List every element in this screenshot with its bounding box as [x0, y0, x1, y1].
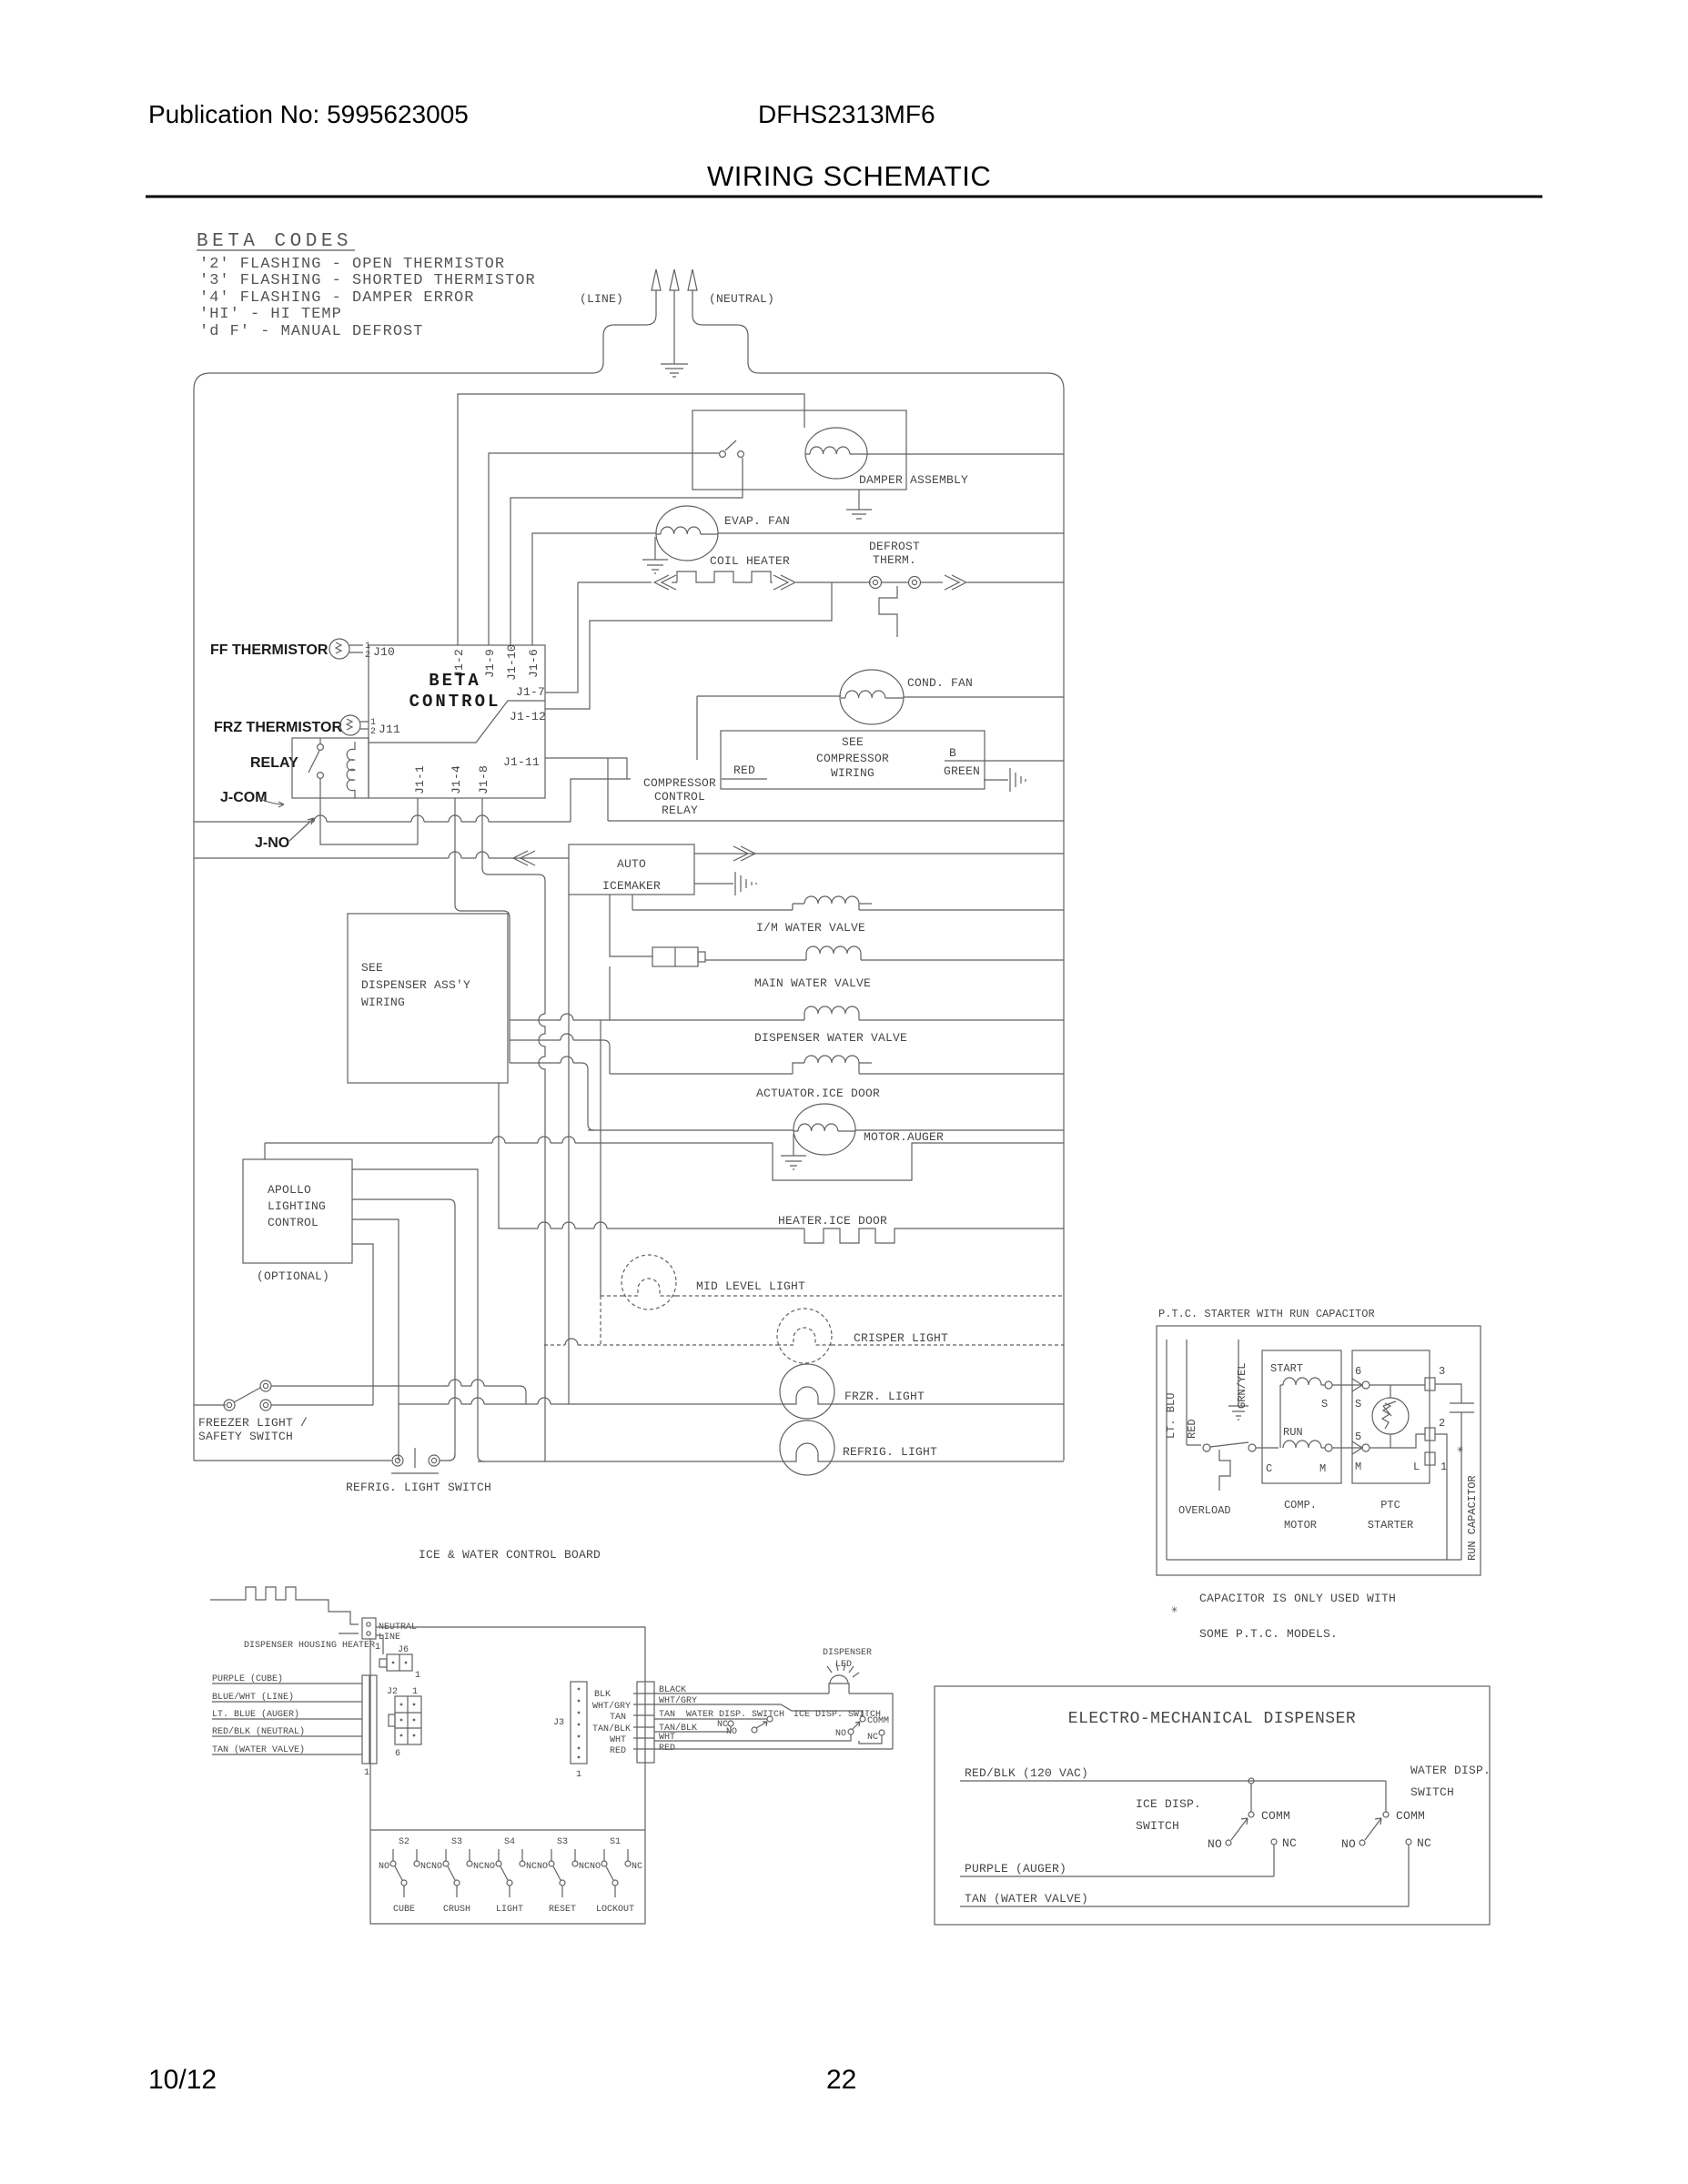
start winding coil — [1280, 1378, 1325, 1385]
svg-text:RED/BLK (120 VAC): RED/BLK (120 VAC) — [965, 1766, 1088, 1780]
FRZ thermistor symbol — [340, 715, 369, 735]
BETA CONTROL box — [369, 645, 545, 798]
freezer switch lower row — [271, 1404, 373, 1406]
apollo output 2 — [352, 1199, 455, 1461]
mid level light dashed row — [601, 1255, 1064, 1345]
svg-text:REFRIG. LIGHT: REFRIG. LIGHT — [843, 1445, 937, 1459]
refrig light bulb — [780, 1421, 834, 1475]
svg-text:TAN: TAN — [659, 1710, 675, 1720]
switch S3 — [443, 1849, 472, 1897]
svg-text:M: M — [1355, 1461, 1361, 1473]
svg-text:J1-1: J1-1 — [413, 765, 427, 794]
svg-text:RED/BLK (NEUTRAL): RED/BLK (NEUTRAL) — [212, 1726, 305, 1737]
svg-text:DISPENSER ASS'Y: DISPENSER ASS'Y — [361, 978, 470, 992]
ice water control board box — [370, 1627, 645, 1924]
hops on upper row — [449, 1380, 484, 1386]
dispenser housing heater element — [210, 1587, 359, 1624]
hop arcs on left rail — [314, 815, 489, 822]
svg-text:10/12: 10/12 — [148, 2065, 217, 2095]
damper motor coil — [805, 447, 867, 454]
svg-text:J1-12: J1-12 — [510, 710, 546, 723]
svg-text:BLUE/WHT (LINE): BLUE/WHT (LINE) — [212, 1692, 294, 1703]
actuator ice door feed from dispenser box — [510, 1034, 610, 1074]
wire main valve connector down to dispenser row — [609, 966, 611, 1020]
svg-text:ICEMAKER: ICEMAKER — [602, 879, 661, 893]
svg-text:FRZR. LIGHT: FRZR. LIGHT — [844, 1390, 925, 1403]
svg-text:S: S — [1355, 1398, 1361, 1410]
svg-text:SOME P.T.C. MODELS.: SOME P.T.C. MODELS. — [1199, 1627, 1338, 1641]
svg-text:WHT: WHT — [610, 1735, 626, 1745]
motor loop row — [265, 1137, 1064, 1180]
damper ground stem — [858, 490, 860, 510]
frzr light bulb — [780, 1364, 834, 1419]
svg-text:P.T.C. STARTER WITH RUN CAPACI: P.T.C. STARTER WITH RUN CAPACITOR — [1158, 1308, 1375, 1320]
freezer row riser 578 — [520, 1386, 526, 1404]
svg-text:J-COM: J-COM — [220, 790, 268, 805]
svg-text:CONTROL: CONTROL — [268, 1216, 318, 1229]
svg-text:NO: NO — [484, 1862, 495, 1872]
evap fan ground symbol — [642, 560, 668, 573]
wire overload to comp motor — [1256, 1447, 1279, 1449]
icemaker feed left arrows — [513, 851, 535, 865]
svg-text:TAN (WATER VALVE): TAN (WATER VALVE) — [212, 1744, 305, 1755]
wire icemaker to main valve connector — [610, 895, 652, 956]
wire GRN/YEL with ground — [1228, 1340, 1248, 1420]
svg-text:PURPLE (AUGER): PURPLE (AUGER) — [965, 1862, 1066, 1876]
ice disp switch contacts — [848, 1716, 884, 1735]
svg-text:'3' FLASHING - SHORTED THERMIS: '3' FLASHING - SHORTED THERMISTOR — [199, 272, 536, 289]
refrig row to right frame — [478, 1461, 1064, 1462]
wire WHT to NO — [654, 1734, 882, 1744]
frzr light row — [399, 1364, 1064, 1419]
svg-text:LIGHT: LIGHT — [496, 1905, 523, 1915]
svg-text:FRZ THERMISTOR: FRZ THERMISTOR — [214, 720, 342, 735]
wire lt blue — [212, 1718, 362, 1720]
PTC outer box — [1157, 1326, 1481, 1575]
svg-text:RUN: RUN — [1283, 1426, 1303, 1439]
freezer switch upper row — [271, 1385, 520, 1387]
auto icemaker box — [194, 844, 1064, 895]
svg-text:COMPRESSOR: COMPRESSOR — [816, 752, 889, 765]
svg-text:THERM.: THERM. — [873, 553, 916, 567]
bundle vertical 660 dispenser-light — [600, 1020, 601, 1296]
svg-text:DFHS2313MF6: DFHS2313MF6 — [758, 100, 935, 128]
svg-text:S: S — [1321, 1398, 1328, 1410]
wire relay NO to J1-1 — [320, 779, 418, 844]
apollo wire to motor loop row — [264, 1143, 266, 1159]
wire neutral-in S-curve to frame top — [692, 290, 759, 373]
svg-text:Publication No: 5995623005: Publication No: 5995623005 — [148, 100, 469, 128]
bundle wire J1-4 to dispenser feeds — [455, 798, 601, 1461]
svg-text:1: 1 — [364, 1768, 369, 1778]
svg-text:(NEUTRAL): (NEUTRAL) — [709, 292, 774, 306]
svg-text:NO: NO — [1341, 1837, 1356, 1851]
svg-text:MAIN WATER VALVE: MAIN WATER VALVE — [754, 976, 871, 990]
svg-text:CRISPER LIGHT: CRISPER LIGHT — [854, 1331, 948, 1345]
actuator ice door row — [610, 1056, 1064, 1074]
svg-text:NC: NC — [867, 1733, 878, 1743]
terminal 5 triangle and contact — [1352, 1441, 1362, 1454]
hops of heater row over verticals — [538, 1222, 607, 1228]
water disp switch contacts — [728, 1716, 773, 1733]
evap fan motor — [642, 506, 1064, 573]
svg-text:NC: NC — [526, 1862, 537, 1872]
wire LT.BLU vertical — [1166, 1340, 1167, 1560]
svg-text:NC: NC — [420, 1862, 431, 1872]
svg-text:NC: NC — [717, 1720, 728, 1730]
apollo output 3 — [352, 1219, 399, 1461]
crisper light dashed row — [544, 1309, 1064, 1363]
J-COM leader arrow — [260, 799, 284, 807]
ground arrow (center) — [670, 269, 679, 290]
wire icemaker to IM water valve — [632, 895, 633, 910]
ice disp switch stem — [1250, 1784, 1252, 1812]
svg-text:RED: RED — [733, 763, 755, 777]
svg-text:LED: LED — [835, 1660, 852, 1670]
dispenser water valve row — [510, 1006, 1064, 1020]
svg-text:PURPLE (CUBE): PURPLE (CUBE) — [212, 1673, 283, 1684]
svg-text:L: L — [1413, 1461, 1420, 1473]
icemaker chassis ground comb — [735, 872, 756, 895]
defrost right arrows to frame — [921, 575, 1064, 590]
svg-text:BETA CODES: BETA CODES — [197, 231, 352, 252]
svg-text:J-NO: J-NO — [255, 835, 289, 851]
svg-text:BLK: BLK — [594, 1690, 611, 1700]
overload switch — [1203, 1442, 1279, 1491]
svg-text:'2' FLASHING - OPEN THERMISTOR: '2' FLASHING - OPEN THERMISTOR — [199, 256, 505, 273]
svg-text:STARTER: STARTER — [1368, 1519, 1413, 1532]
svg-text:SWITCH: SWITCH — [1136, 1819, 1179, 1833]
title rule — [146, 196, 1542, 198]
wire M to PTC — [1332, 1447, 1361, 1449]
switch S2 — [390, 1849, 419, 1897]
svg-text:NO: NO — [379, 1862, 389, 1872]
svg-text:LIGHTING: LIGHTING — [268, 1199, 326, 1213]
svg-text:1: 1 — [1440, 1461, 1447, 1473]
svg-text:(LINE): (LINE) — [580, 292, 623, 306]
svg-text:ACTUATOR.ICE DOOR: ACTUATOR.ICE DOOR — [756, 1087, 880, 1100]
svg-text:NC: NC — [473, 1862, 484, 1872]
svg-text:(OPTIONAL): (OPTIONAL) — [257, 1269, 329, 1283]
svg-text:OVERLOAD: OVERLOAD — [1178, 1504, 1231, 1517]
svg-text:DISPENSER WATER VALVE: DISPENSER WATER VALVE — [754, 1031, 907, 1045]
I/M water valve coil — [632, 896, 1064, 910]
svg-text:1: 1 — [576, 1770, 581, 1780]
coil heater right arrows — [773, 575, 871, 590]
main frame top-right and right — [759, 373, 1064, 1461]
svg-text:RELAY: RELAY — [250, 755, 298, 771]
main frame left and top-left — [194, 373, 592, 1461]
bundle wire J1-8 down to refrig row — [482, 798, 545, 1461]
svg-text:J1-9: J1-9 — [483, 649, 497, 678]
start winding loop to run — [1279, 1385, 1281, 1448]
apollo output 4 — [352, 1244, 373, 1405]
svg-text:DAMPER ASSEMBLY: DAMPER ASSEMBLY — [859, 473, 968, 487]
J3 connector — [571, 1682, 587, 1764]
svg-text:J1-10: J1-10 — [505, 644, 519, 681]
svg-text:CUBE: CUBE — [393, 1905, 415, 1915]
svg-text:LT. BLUE (AUGER): LT. BLUE (AUGER) — [212, 1709, 299, 1720]
svg-text:2: 2 — [365, 651, 370, 661]
wire S to PTC — [1332, 1384, 1361, 1386]
svg-text:RELAY: RELAY — [662, 804, 698, 817]
svg-text:6: 6 — [395, 1749, 400, 1759]
svg-text:SAFETY SWITCH: SAFETY SWITCH — [198, 1430, 293, 1443]
see dispenser assy wiring box — [348, 914, 610, 1083]
svg-text:1: 1 — [375, 1643, 380, 1653]
svg-text:NC: NC — [1417, 1836, 1431, 1850]
svg-text:FREEZER LIGHT /: FREEZER LIGHT / — [198, 1416, 308, 1430]
ice disp NO and NC — [1226, 1840, 1231, 1845]
svg-text:START: START — [1270, 1362, 1303, 1375]
defrost therm contact right — [909, 577, 921, 589]
svg-text:5: 5 — [1355, 1431, 1361, 1443]
svg-text:CAPACITOR IS ONLY USED WITH: CAPACITOR IS ONLY USED WITH — [1199, 1592, 1396, 1605]
terminal squares — [1425, 1378, 1435, 1390]
wire blue/wht — [212, 1701, 362, 1703]
svg-text:WIRING: WIRING — [831, 766, 874, 780]
svg-text:CONTROL: CONTROL — [409, 692, 501, 712]
neutral/line connector — [339, 1618, 376, 1639]
wire J1-6 to evap fan — [532, 533, 656, 645]
svg-text:COMPRESSOR: COMPRESSOR — [643, 776, 716, 790]
svg-text:J3: J3 — [553, 1718, 564, 1728]
svg-text:CONTROL: CONTROL — [654, 790, 705, 804]
svg-text:B: B — [949, 746, 956, 760]
svg-text:'4' FLASHING - DAMPER ERROR: '4' FLASHING - DAMPER ERROR — [199, 289, 474, 307]
terminal 6 triangle and contact — [1352, 1379, 1362, 1391]
svg-text:MID LEVEL LIGHT: MID LEVEL LIGHT — [696, 1279, 805, 1293]
wire J1-7 to coil heater — [545, 582, 578, 693]
coil heater left arrows — [654, 575, 676, 590]
svg-text:J1-6: J1-6 — [527, 649, 541, 678]
defrost therm contact left — [870, 577, 882, 589]
left input connector — [362, 1675, 377, 1764]
wire J1-12 to defrost bypass — [545, 582, 832, 709]
svg-text:✳: ✳ — [1171, 1603, 1178, 1616]
svg-text:WHT/GRY: WHT/GRY — [592, 1701, 631, 1712]
FF thermistor symbol — [329, 639, 363, 659]
svg-text:J2: J2 — [387, 1687, 398, 1697]
dispenser LED body — [829, 1675, 849, 1694]
svg-text:6: 6 — [1355, 1365, 1361, 1378]
svg-text:1: 1 — [412, 1687, 418, 1697]
wire line-in S-curve to frame top — [592, 290, 656, 373]
svg-text:COMM: COMM — [1396, 1809, 1425, 1823]
cond fan motor — [697, 670, 1064, 760]
switch blade — [234, 1388, 260, 1402]
svg-text:'d F' - MANUAL DEFROST: 'd F' - MANUAL DEFROST — [199, 323, 423, 340]
damper switch contacts — [720, 451, 726, 458]
dashed vertical to crisper row — [600, 1296, 601, 1345]
comp motor box — [1262, 1350, 1361, 1483]
svg-text:REFRIG. LIGHT SWITCH: REFRIG. LIGHT SWITCH — [346, 1481, 491, 1494]
svg-text:SWITCH: SWITCH — [1410, 1785, 1454, 1799]
wire TAN/BLK to NC — [654, 1726, 731, 1732]
svg-text:TAN/BLK: TAN/BLK — [592, 1724, 631, 1734]
svg-text:WIRING SCHEMATIC: WIRING SCHEMATIC — [707, 160, 991, 192]
J6 connector — [379, 1654, 412, 1671]
relay rail left to frame — [194, 821, 571, 823]
wire WHT/GRY to ice disp switch — [654, 1704, 863, 1716]
icemaker ground stub — [694, 883, 733, 885]
svg-text:✳: ✳ — [1457, 1443, 1463, 1456]
svg-text:NC: NC — [632, 1862, 642, 1872]
svg-text:NO: NO — [431, 1862, 442, 1872]
evap fan lead to right frame — [718, 532, 1064, 534]
coil heater element — [578, 571, 773, 582]
svg-text:MOTOR.AUGER: MOTOR.AUGER — [864, 1130, 944, 1144]
J-NO leader arrow — [289, 818, 314, 841]
svg-text:HEATER.ICE DOOR: HEATER.ICE DOOR — [778, 1214, 887, 1228]
svg-text:PTC: PTC — [1380, 1499, 1400, 1512]
damper assembly box — [692, 410, 1064, 519]
svg-text:J10: J10 — [373, 645, 395, 659]
wire RED bottom — [654, 1748, 893, 1750]
svg-text:S2: S2 — [399, 1837, 409, 1847]
wire tan water valve — [212, 1754, 362, 1755]
damper ground symbol — [846, 510, 872, 519]
switch S1 — [601, 1849, 631, 1897]
svg-text:22: 22 — [826, 2065, 856, 2095]
neutral arrow — [688, 269, 697, 290]
wire TAN to water disp switch — [654, 1718, 767, 1720]
svg-text:MOTOR: MOTOR — [1284, 1519, 1317, 1532]
bundle vertical icemaker edge down — [568, 895, 570, 1404]
svg-text:NO: NO — [590, 1862, 601, 1872]
hop arcs on icemaker feed — [449, 852, 489, 858]
svg-text:ELECTRO-MECHANICAL DISPENSER: ELECTRO-MECHANICAL DISPENSER — [1068, 1710, 1356, 1728]
overload protector step — [1219, 1450, 1230, 1491]
BETA CONTROL box internal notch line — [369, 701, 545, 743]
relay coil — [347, 742, 355, 798]
motor auger feed from dispenser box — [510, 1057, 594, 1130]
wire icemaker feed from left frame — [194, 857, 569, 859]
svg-text:LOCKOUT: LOCKOUT — [596, 1905, 634, 1915]
svg-text:NC: NC — [1282, 1836, 1297, 1850]
relay contacts — [318, 744, 324, 751]
svg-text:J11: J11 — [379, 723, 400, 736]
ptc starter box — [1352, 1350, 1435, 1483]
svg-text:COND. FAN: COND. FAN — [907, 676, 973, 690]
electro-mechanical dispenser box — [935, 1686, 1490, 1925]
svg-text:RED: RED — [1186, 1419, 1198, 1439]
defrost therm bypass step — [879, 582, 908, 637]
svg-text:COMM: COMM — [1261, 1809, 1290, 1823]
refrig light switch — [194, 1421, 1064, 1475]
icemaker out right arrows — [733, 846, 755, 861]
svg-text:NO: NO — [537, 1862, 548, 1872]
apollo output 1 — [352, 1169, 484, 1461]
svg-text:RUN CAPACITOR: RUN CAPACITOR — [1466, 1475, 1479, 1561]
svg-text:I/M WATER VALVE: I/M WATER VALVE — [756, 921, 865, 935]
svg-text:RED: RED — [610, 1746, 626, 1756]
damper motor lead to right frame — [867, 453, 1064, 455]
svg-text:CRUSH: CRUSH — [443, 1905, 470, 1915]
ptc internal wires — [1370, 1385, 1425, 1448]
wire J1-10 to damper switch NC — [510, 458, 743, 645]
wire tan water valve (dispenser) — [960, 1906, 1409, 1907]
motor auger — [588, 1104, 1064, 1169]
motor auger ground — [781, 1134, 806, 1169]
svg-text:DEFROST: DEFROST — [869, 540, 920, 553]
evap fan ground stem — [654, 537, 656, 560]
svg-text:DISPENSER HOUSING HEATER: DISPENSER HOUSING HEATER — [244, 1641, 375, 1651]
svg-text:DISPENSER: DISPENSER — [823, 1648, 872, 1658]
wire purple auger — [960, 1876, 1274, 1877]
freezer light safety switch — [194, 1380, 520, 1410]
LED rays — [827, 1663, 859, 1677]
svg-text:1: 1 — [415, 1671, 420, 1681]
svg-text:NO: NO — [1208, 1837, 1222, 1851]
heater ice door row — [499, 1083, 1064, 1243]
svg-text:COMM: COMM — [867, 1716, 889, 1726]
svg-text:COIL HEATER: COIL HEATER — [710, 554, 790, 568]
chassis ground comb — [1010, 768, 1026, 792]
svg-text:M: M — [1319, 1462, 1326, 1475]
svg-text:ICE & WATER CONTROL BOARD: ICE & WATER CONTROL BOARD — [419, 1548, 601, 1562]
svg-text:J1-7: J1-7 — [516, 685, 545, 699]
svg-text:LT. BLU: LT. BLU — [1165, 1393, 1178, 1439]
run capacitor — [1435, 1384, 1474, 1560]
svg-text:WIRING: WIRING — [361, 996, 405, 1009]
svg-text:RESET: RESET — [549, 1905, 576, 1915]
svg-text:S1: S1 — [610, 1837, 621, 1847]
wire RED vertical to overload — [1187, 1340, 1201, 1445]
svg-text:S3: S3 — [557, 1837, 568, 1847]
svg-text:WATER DISP.: WATER DISP. — [1410, 1764, 1491, 1777]
main water valve coil — [705, 946, 1064, 960]
wire icemaker out to right frame — [694, 853, 1064, 854]
svg-text:J1-8: J1-8 — [477, 765, 490, 794]
wire center ground stem — [673, 290, 675, 364]
svg-text:COMP.: COMP. — [1284, 1499, 1317, 1512]
svg-text:SEE: SEE — [361, 961, 383, 975]
wire J1-2 to damper motor — [458, 394, 804, 645]
relay rail bottom to right frame — [608, 820, 1064, 822]
svg-text:SEE: SEE — [842, 735, 864, 749]
wire GREEN to chassis ground — [984, 768, 1026, 792]
svg-text:J6: J6 — [398, 1645, 409, 1655]
svg-text:NC: NC — [579, 1862, 590, 1872]
svg-text:WATER DISP. SWITCH: WATER DISP. SWITCH — [686, 1710, 784, 1720]
board output connector — [633, 1682, 654, 1763]
wire BLACK with dispenser LED — [654, 1663, 893, 1749]
svg-text:LINE: LINE — [379, 1633, 400, 1643]
damper switch blade — [725, 440, 736, 450]
svg-text:EVAP. FAN: EVAP. FAN — [724, 514, 790, 528]
PTC bottom rail — [1167, 1559, 1461, 1561]
svg-text:J1-11: J1-11 — [503, 755, 540, 769]
damper motor ellipse — [805, 428, 867, 479]
line arrow — [652, 269, 661, 290]
svg-text:NO: NO — [835, 1729, 846, 1739]
main water valve connector — [652, 947, 705, 966]
water disp switch — [1359, 1781, 1411, 1906]
ptc thermistor circle — [1372, 1398, 1409, 1434]
J2 connector — [389, 1696, 421, 1744]
apollo lighting control box — [243, 1143, 484, 1461]
svg-text:C: C — [1266, 1462, 1272, 1475]
hop arcs on motor loop row — [492, 1137, 575, 1143]
svg-text:GREEN: GREEN — [944, 764, 980, 778]
see compressor wiring box — [721, 731, 985, 789]
LINE wire to J6 — [376, 1635, 383, 1654]
wire red/blk — [212, 1735, 362, 1737]
svg-text:'HI' - HI TEMP: 'HI' - HI TEMP — [199, 306, 342, 323]
svg-text:TAN: TAN — [610, 1713, 626, 1723]
svg-text:ICE DISP.: ICE DISP. — [1136, 1797, 1201, 1811]
